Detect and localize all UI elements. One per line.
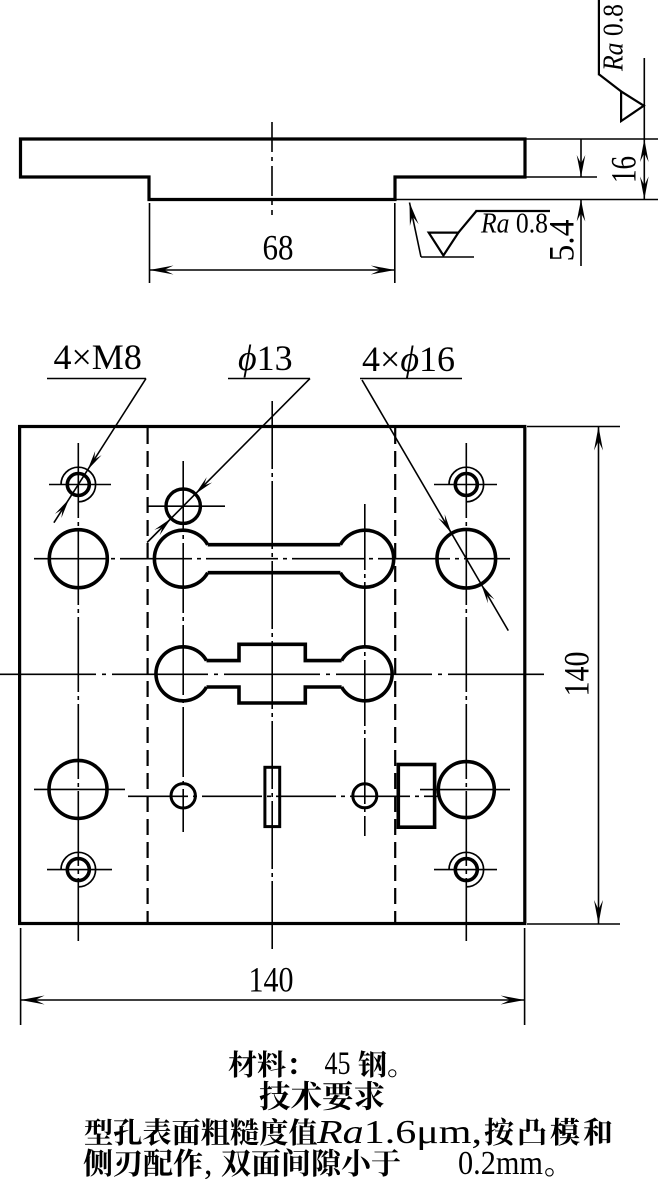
section centerline bbox=[271, 122, 273, 215]
note line 3: roughness requirement bbox=[85, 1118, 318, 1146]
dim 68 extension line right bbox=[394, 203, 396, 283]
surface roughness Ra 0.8 on recess: leader arrow bbox=[410, 203, 422, 258]
crosshair M8 top-right bbox=[434, 484, 497, 486]
symbol arm (rotated) bbox=[599, 74, 621, 91]
thin rectangular slot (row 4 center) bbox=[265, 767, 280, 826]
leader horizontal bbox=[421, 256, 474, 258]
leader phi13 bbox=[147, 379, 310, 543]
svg-text:68: 68 bbox=[263, 228, 294, 268]
svg-text:ϕ13: ϕ13 bbox=[238, 338, 293, 378]
M8 threaded hole top-left: outer thread arc bbox=[61, 467, 96, 502]
M8 threaded hole top-right: outer thread arc bbox=[449, 467, 484, 502]
M8 threaded hole bottom-left: inner circle bbox=[67, 859, 89, 881]
phi13 hole bbox=[166, 489, 200, 523]
svg-text:140: 140 bbox=[557, 652, 597, 697]
symbol bar (rotated) bbox=[598, 0, 600, 75]
top edge extension line (right) bbox=[525, 138, 658, 140]
tab bottom extension line (right) bbox=[527, 176, 598, 178]
crosshair big circle row4 right bbox=[420, 789, 510, 791]
phi16 hole top-right bbox=[437, 529, 496, 588]
dim 140 bottom: dimension line bbox=[21, 999, 525, 1001]
recess boundary dashed line left bbox=[147, 428, 149, 922]
crosshair M8 top-left bbox=[49, 484, 111, 486]
dim 140 right: extension line bottom bbox=[527, 923, 620, 925]
phi16 hole bottom-right bbox=[438, 762, 494, 818]
centerline row 2 bbox=[34, 558, 510, 560]
centerline row 3 bbox=[0, 673, 544, 675]
centerline column right slots bbox=[364, 504, 366, 836]
symbol arm bbox=[458, 211, 476, 233]
recess boundary dashed line right bbox=[394, 428, 396, 922]
small hole row4 right bbox=[353, 784, 377, 808]
centerline column left bolts bbox=[77, 443, 79, 941]
dim 140 bottom: extension line left bbox=[20, 928, 22, 1025]
note line 2: technical requirements heading bbox=[260, 1081, 384, 1111]
square cutout (row 4 right) bbox=[398, 765, 434, 828]
note line 4: fitting clearance bbox=[84, 1149, 203, 1177]
crosshair M8 bottom-left bbox=[47, 869, 112, 871]
svg-text:16: 16 bbox=[604, 156, 644, 183]
svg-text:Ra 0.8: Ra 0.8 bbox=[599, 4, 630, 72]
centerline column right bolts bbox=[465, 443, 467, 941]
dim 5.4 lower arrow line bbox=[580, 200, 582, 267]
plate outline (plan view) bbox=[20, 427, 525, 924]
symbol bar bbox=[475, 210, 550, 212]
middle slot with rectangular bump (row 3) bbox=[156, 644, 392, 703]
crosshair big circle row4 left bbox=[34, 788, 125, 790]
dim 140 right: extension line top bbox=[527, 426, 620, 428]
crosshair M8 bottom-right bbox=[434, 869, 497, 871]
centerline row 4 bbox=[128, 795, 438, 797]
label 4xphi16 underline bbox=[360, 378, 462, 380]
label phi13 underline bbox=[228, 378, 310, 380]
svg-text:45: 45 bbox=[325, 1046, 351, 1082]
dim 68 extension line left bbox=[149, 203, 151, 283]
centerline column middle bbox=[271, 401, 273, 949]
leader 4xphi16 bbox=[362, 380, 508, 631]
svg-text:4×M8: 4×M8 bbox=[54, 337, 142, 377]
svg-text:0.2mm: 0.2mm bbox=[458, 1145, 543, 1179]
dim 140 right: dimension line bbox=[598, 427, 600, 925]
svg-text:Ra 0.8: Ra 0.8 bbox=[480, 209, 548, 240]
M8 threaded hole bottom-right: inner circle bbox=[455, 859, 477, 881]
dim 16 dimension line bbox=[643, 58, 645, 200]
M8 threaded hole bottom-right: outer thread arc bbox=[449, 852, 484, 887]
dumbbell slot (row 2) bbox=[154, 530, 393, 587]
M8 threaded hole top-left: inner circle bbox=[67, 474, 89, 496]
phi16 hole top-left bbox=[49, 530, 107, 588]
roughness check triangle bbox=[429, 233, 459, 256]
crosshair phi13 bbox=[147, 505, 225, 507]
label 4xM8 underline bbox=[47, 378, 146, 380]
boss bottom extension line (right) bbox=[397, 199, 659, 201]
dim 68 dimension line with arrows bbox=[150, 269, 395, 271]
svg-text:4×ϕ16: 4×ϕ16 bbox=[362, 339, 455, 379]
M8 threaded hole bottom-left: outer thread arc bbox=[61, 852, 96, 887]
phi16 hole bottom-left bbox=[49, 760, 107, 818]
centerline column phi13/left slots bbox=[182, 461, 184, 832]
M8 threaded hole top-right: inner circle bbox=[455, 474, 477, 496]
section view: stepped plate outline bbox=[21, 139, 526, 200]
dim 140 bottom: extension line right bbox=[524, 928, 526, 1025]
leader 4xM8 bbox=[54, 379, 146, 523]
svg-text:140: 140 bbox=[249, 960, 294, 1000]
note line 1: material 45 steel bbox=[229, 1050, 297, 1077]
surface roughness Ra 0.8 top-right (rotated): check triangle bbox=[621, 91, 644, 121]
small hole row4 left bbox=[171, 784, 195, 808]
dim 5.4 upper arrow line bbox=[580, 139, 582, 177]
svg-text:,: , bbox=[204, 1145, 213, 1179]
